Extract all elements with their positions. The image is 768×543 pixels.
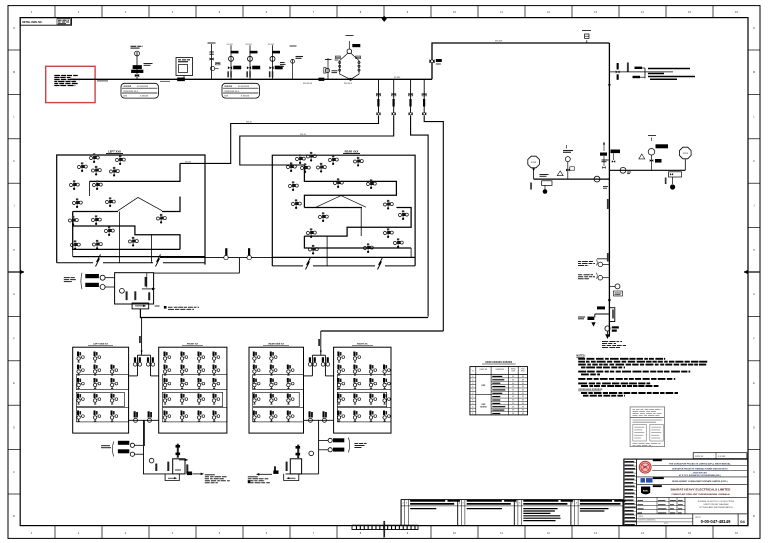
drop D4 routing to feed riser FR2	[424, 116, 443, 332]
gauge G1 on riser	[609, 284, 622, 296]
coil instrument L10	[69, 219, 72, 222]
svg-text:C: C	[13, 471, 15, 474]
svg-text:X XXXXX: X XXXXX	[140, 96, 149, 98]
notes block	[576, 355, 707, 396]
drop D1 routing to left coil bank	[180, 116, 379, 164]
centering mark top	[382, 16, 387, 22]
riser line label	[607, 199, 609, 262]
coil instrument L5	[110, 170, 113, 173]
signature grid	[637, 497, 685, 514]
warning triangle T1	[557, 171, 563, 176]
svg-text:DPL: DPL	[643, 467, 648, 469]
DCPL logo (blue)	[637, 478, 747, 484]
centering mark right	[744, 270, 760, 275]
BHEL emblem	[641, 487, 650, 495]
left bank serpentine piping	[73, 163, 205, 262]
riser terminal station	[578, 299, 627, 348]
coil instrument R18	[364, 247, 367, 250]
svg-text:REAR SIDE XX: REAR SIDE XX	[268, 343, 284, 346]
bottom bank B4 (right side wall)	[334, 347, 391, 433]
sample station S2 on riser	[578, 273, 609, 280]
svg-text:XXXXXXX: XXXXXXX	[496, 369, 505, 371]
svg-text:XXX-XX-X: XXX-XX-X	[344, 83, 353, 85]
BHEL title rows	[637, 488, 747, 498]
svg-text:XX XX/XXXX: XX XX/XXXX	[137, 86, 149, 88]
right bank break symbol 2	[378, 258, 383, 270]
coil instrument L7	[93, 184, 96, 187]
svg-text:M: M	[753, 71, 755, 74]
coil instrument L16	[129, 240, 132, 243]
svg-text:XX-XXX: XX-XXX	[394, 77, 401, 79]
svg-text:D: D	[753, 426, 755, 429]
coil instrument R9	[334, 182, 337, 185]
assembly A2 below connector CA	[101, 420, 230, 483]
svg-text:DEVELOPMENT CONSULTANTS PRIVAT: DEVELOPMENT CONSULTANTS PRIVATE LIMITED …	[672, 480, 728, 483]
control valve station CV-3	[272, 45, 274, 79]
coil instrument R13	[319, 216, 322, 219]
instrument stack on CW supply	[648, 136, 668, 171]
coil instrument L14	[93, 243, 96, 246]
svg-text:BHARAT HEAVY ELECTRICALS LIMIT: BHARAT HEAVY ELECTRICALS LIMITED	[671, 488, 732, 492]
coil instrument L12	[157, 217, 160, 220]
coil instrument R7	[354, 160, 357, 163]
header riser to top distribution line	[432, 43, 609, 79]
bank B3 title	[263, 343, 289, 346]
svg-text:G: G	[753, 293, 755, 296]
svg-text:XXXX: XXXX	[683, 153, 689, 155]
svg-text:XXXX: XXXX	[531, 162, 537, 164]
left bank title LEFT 17A	[106, 150, 123, 154]
svg-text:XX XX/XXXX: XX XX/XXXX	[238, 86, 250, 88]
bottom bank B3 (rear wall)	[249, 347, 304, 433]
svg-text:C: C	[753, 471, 755, 474]
coil instrument L2	[78, 166, 81, 169]
assembly A4 right sample points	[319, 438, 367, 453]
svg-text:XXX-XXX: XXX-XXX	[495, 41, 503, 43]
coil instrument R11	[292, 203, 295, 206]
left coil bank boundary 17A	[57, 155, 205, 265]
bottom bank B2 (front wall)	[159, 347, 227, 433]
svg-text:0-00-047-48149: 0-00-047-48149	[701, 519, 731, 524]
svg-text:XXX-XX: XXX-XX	[246, 121, 253, 123]
header drop branch D1 with globe valve	[376, 79, 380, 115]
svg-text:FRONT XX: FRONT XX	[187, 344, 199, 346]
svg-text:X.X.XXX: X.X.XXX	[718, 456, 726, 458]
svg-text:H: H	[13, 249, 15, 252]
center riser instruments	[600, 142, 620, 169]
header drop branch D2 with globe valve	[392, 79, 396, 115]
owner name rows	[637, 459, 747, 487]
svg-text:XXXXX: XXXXX	[480, 406, 487, 408]
svg-text:XXX: XXX	[481, 385, 486, 387]
svg-text:XXXX XX: XXXX XX	[480, 369, 488, 371]
CW return tag	[603, 186, 608, 188]
approval stamp (faint)	[630, 407, 665, 447]
instrument riser PI-4	[280, 46, 303, 79]
revision history strip (left column)	[624, 459, 637, 525]
utility connector CWRA (octagon)	[528, 156, 540, 179]
svg-text:M: M	[13, 71, 15, 74]
header line label 2	[160, 80, 170, 82]
feed line FL2 (right)	[321, 330, 444, 332]
valve schedule table	[470, 361, 528, 415]
DPL logo (red)	[639, 461, 651, 473]
graphic scale bar	[352, 525, 418, 529]
svg-text:DURGAPUR PROJECTS THERMAL POWE: DURGAPUR PROJECTS THERMAL POWER STATION …	[672, 467, 728, 470]
sample station S1 on riser	[578, 259, 609, 267]
coil instrument L13	[71, 244, 74, 247]
isolation valve on riser V-TR	[429, 59, 441, 64]
top-left drawing reference box	[20, 18, 71, 26]
header drop branch D4 with globe valve	[422, 79, 426, 115]
coil instrument R15	[307, 232, 310, 235]
instrument stack on CW return	[563, 145, 574, 179]
twin-branch sampling assembly	[335, 36, 361, 81]
title block outline	[624, 459, 748, 525]
coil instrument L9	[106, 201, 109, 204]
svg-text:XXX-XX: XXX-XX	[300, 134, 307, 136]
coil instrument L1	[90, 157, 93, 160]
inline valve blob 1	[319, 78, 324, 81]
svg-text:DETAIL-DWG-NO-: DETAIL-DWG-NO-	[22, 21, 42, 24]
line data box IB2	[222, 83, 259, 98]
CW return line (left)	[534, 178, 610, 180]
svg-text:XX-XXX: XX-XXX	[227, 44, 234, 46]
assembly A3 below connector CB	[248, 420, 319, 483]
coil instrument L11	[92, 219, 95, 222]
branch to pre-boiler with valves	[609, 63, 695, 80]
coil instrument L4	[116, 159, 119, 162]
drain pot on CW return	[530, 175, 552, 194]
svg-text:X XXXXX: X XXXXX	[241, 96, 250, 98]
right main riser (top)	[608, 43, 610, 150]
svg-text:XXX-XX-XX: XXX-XX-XX	[303, 83, 313, 85]
coil instrument R1	[296, 158, 299, 161]
drawing title text	[698, 501, 735, 509]
coil instrument R14	[399, 214, 402, 217]
svg-text:LEFT SIDE XX: LEFT SIDE XX	[93, 344, 108, 346]
CW supply line (right)	[609, 169, 685, 171]
A1 inlet from interbank tee	[154, 272, 240, 274]
svg-text:LEFT XXX: LEFT XXX	[108, 150, 121, 154]
svg-text:XX-XXX: XX-XXX	[246, 44, 253, 46]
bottom number row	[637, 514, 747, 526]
coil instrument R16	[384, 232, 387, 235]
vent stack with valve VS-1	[208, 43, 221, 79]
revision strip	[401, 500, 626, 526]
cad file box	[693, 453, 747, 459]
svg-text:D: D	[13, 426, 15, 429]
feed line FL1 (left)	[140, 309, 428, 318]
svg-text:N: N	[753, 27, 755, 30]
header drop branch D3 with globe valve	[408, 79, 412, 115]
svg-text:XXXX XX: XXXX XX	[695, 456, 704, 458]
drain pot on CW supply	[665, 172, 682, 190]
right bank break symbol 1	[306, 258, 311, 270]
svg-text:RIGHT XX: RIGHT XX	[357, 344, 368, 346]
red revision cloud rectangle	[46, 66, 95, 102]
right bank title REAR 17B	[343, 150, 360, 154]
inline strainer / skid box	[176, 58, 193, 81]
valve ball on CW supply	[620, 167, 631, 173]
bottom bank B1 (left side wall)	[73, 347, 129, 433]
bank connector CB (B3-B4)	[312, 354, 325, 356]
svg-text:XXXXXX: XXXXXX	[123, 86, 132, 88]
top line flow element FE-1	[582, 31, 591, 44]
coil instrument R8	[289, 185, 292, 188]
coil instrument L3	[92, 169, 95, 172]
coil instrument R10	[367, 183, 370, 186]
bank bottom interconnect pipe	[160, 248, 290, 260]
assembly A1: sample cooler station	[64, 273, 199, 310]
centering mark bottom	[383, 521, 385, 537]
coil instrument L15	[105, 230, 108, 233]
blowdown tee to assembly A1	[238, 258, 240, 274]
relief valve PSV-1	[324, 58, 338, 79]
control valve station CV-1	[230, 45, 232, 79]
coil instrument R6	[329, 159, 332, 162]
svg-text:ERECTION KEY DIAGRAM: ERECTION KEY DIAGRAM	[704, 503, 729, 506]
svg-text:XXXXXX: XXXXXX	[224, 86, 233, 88]
note text inside red rectangle	[54, 75, 78, 77]
left bank break symbol 2	[156, 255, 161, 267]
svg-text:REAR XXX: REAR XXX	[345, 150, 359, 154]
centering mark left	[8, 270, 24, 275]
bank connector CA (B1-B2)	[138, 354, 151, 356]
bank B2 title	[182, 344, 203, 346]
bank B4 title	[352, 344, 373, 346]
svg-text:POWER PLANT PIPING UNIT, THIRU: POWER PLANT PIPING UNIT, THIRUMUDIVAKKAM…	[672, 493, 731, 496]
svg-text:BHEL: BHEL	[643, 490, 649, 492]
coil instrument R3	[287, 166, 290, 169]
svg-text:H: H	[753, 249, 755, 252]
svg-text:FITTINGS AND INSTRUMENTATION: FITTINGS AND INSTRUMENTATION	[699, 506, 733, 509]
right bank serpentine piping	[272, 165, 415, 266]
junction dot on riser	[608, 84, 610, 86]
coil instrument R5	[317, 166, 320, 169]
control valve station CV-2	[249, 45, 251, 79]
valve ball on CW return	[594, 176, 600, 182]
FL2 drop to connector CB	[318, 331, 322, 354]
pressure gauge station PG-1	[131, 46, 153, 79]
warning triangle T2	[639, 154, 645, 159]
drop D3 routing to feed riser FR1	[411, 116, 429, 317]
line data box IB1	[121, 83, 158, 98]
svg-text:XX-XXX: XX-XXX	[268, 44, 275, 46]
coil instrument R17	[309, 248, 312, 251]
coil instrument R4	[301, 167, 304, 170]
main steam header pipe	[70, 78, 432, 80]
utility connector CWRB (octagon right)	[680, 147, 692, 170]
right coil bank boundary 17B	[272, 155, 415, 266]
svg-text:XXXX XXXXXX XXXXXX: XXXX XXXXXX XXXXXX	[485, 361, 512, 364]
drop D2 routing to right coil bank	[240, 116, 394, 166]
svg-text:XXXXXXXX XX-X: XXXXXXXX XX-X	[224, 91, 240, 93]
svg-text:G: G	[13, 293, 15, 296]
left bank break symbol 1	[96, 255, 101, 267]
central riser lower run	[608, 150, 610, 337]
coil instrument R19	[394, 242, 397, 245]
svg-text:SCHEME OF BOTTLE COOLER PIPING: SCHEME OF BOTTLE COOLER PIPING	[698, 501, 735, 503]
svg-text:04: 04	[740, 519, 745, 524]
FL1 drop to connector CA	[139, 318, 143, 354]
svg-text:XXXXXXXX XX-X: XXXXXXXX XX-X	[123, 91, 139, 93]
coil instrument R2	[307, 155, 310, 158]
header line label 1	[97, 80, 108, 82]
svg-text:XXXXX XX XXXXXXXX: XXXXX XX XXXXXXXX	[639, 520, 657, 522]
label left of riser	[602, 159, 609, 161]
coil instrument R12	[384, 203, 387, 206]
svg-text:N: N	[13, 27, 15, 30]
bank B1 title	[88, 344, 113, 346]
coil instrument L6	[70, 184, 73, 187]
coil instrument L8	[73, 202, 76, 205]
